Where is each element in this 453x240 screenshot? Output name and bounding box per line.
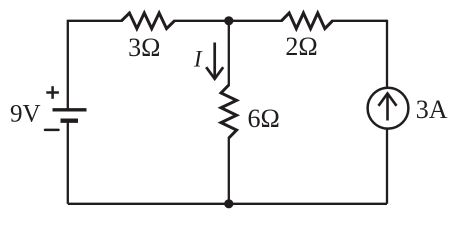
battery V1 top plate (long, positive) <box>53 108 87 111</box>
svg-text:3A: 3A <box>416 95 448 124</box>
wire middle upper (junction to 6ohm) <box>228 21 230 86</box>
wire top-right segment <box>332 20 388 22</box>
resistor R1 3ohm zigzag <box>122 13 175 29</box>
svg-text:6Ω: 6Ω <box>248 104 280 133</box>
wire right upper (to current source) <box>386 20 388 87</box>
svg-text:3Ω: 3Ω <box>128 33 160 62</box>
wire top-middle segment <box>174 20 283 22</box>
resistor R3 6ohm zigzag <box>221 85 237 138</box>
wire middle lower (6ohm to bottom) <box>228 137 230 204</box>
resistor R2 2ohm zigzag <box>282 13 333 29</box>
wire right lower (from current source) <box>386 130 388 204</box>
node B bottom junction dot <box>224 199 233 208</box>
wire left upper (to battery) <box>67 20 69 110</box>
wire left lower (from battery) <box>67 121 69 204</box>
svg-text:I: I <box>193 47 203 72</box>
current source I1 up arrow <box>379 94 397 121</box>
current source I1 circle <box>368 88 409 129</box>
battery minus sign <box>45 129 59 132</box>
node A top junction dot <box>224 16 233 25</box>
svg-text:2Ω: 2Ω <box>285 32 317 61</box>
svg-text:9V: 9V <box>10 101 41 128</box>
wire bottom <box>68 203 387 205</box>
battery plus sign <box>46 86 59 99</box>
wire top-left segment <box>68 20 123 22</box>
battery V1 bottom plate (short, negative) <box>61 118 79 122</box>
current I down arrow <box>206 43 223 79</box>
